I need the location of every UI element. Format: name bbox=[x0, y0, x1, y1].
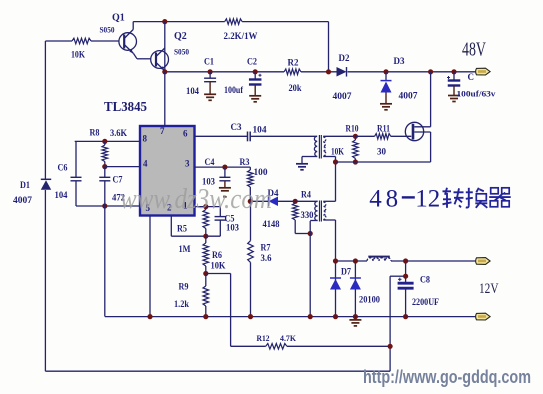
svg-text:C6: C6 bbox=[58, 163, 68, 173]
svg-text:R9: R9 bbox=[179, 282, 189, 292]
svg-text:2: 2 bbox=[428, 186, 441, 213]
svg-text:2.2K/1W: 2.2K/1W bbox=[224, 31, 258, 41]
svg-text:www.dz3w.com: www.dz3w.com bbox=[120, 184, 272, 215]
svg-text:103: 103 bbox=[226, 223, 239, 233]
svg-text:100: 100 bbox=[254, 167, 269, 177]
svg-text:100uf/63v: 100uf/63v bbox=[457, 90, 496, 99]
svg-text:TL3845: TL3845 bbox=[104, 99, 147, 114]
svg-text:C1: C1 bbox=[204, 57, 214, 67]
svg-text:R10: R10 bbox=[346, 124, 359, 134]
svg-text:104: 104 bbox=[186, 86, 199, 96]
svg-text:30: 30 bbox=[377, 148, 386, 158]
svg-text:C2: C2 bbox=[247, 57, 257, 67]
svg-text:100uf: 100uf bbox=[224, 86, 244, 96]
svg-text:10K: 10K bbox=[331, 148, 344, 158]
svg-text:D7: D7 bbox=[341, 267, 351, 277]
svg-text:8: 8 bbox=[143, 134, 148, 144]
svg-text:D1: D1 bbox=[20, 180, 30, 190]
svg-text:R2: R2 bbox=[288, 58, 299, 68]
svg-text:4: 4 bbox=[369, 186, 382, 213]
svg-text:C8: C8 bbox=[420, 275, 430, 285]
svg-text:http://www.go-gddq.com: http://www.go-gddq.com bbox=[363, 366, 531, 387]
svg-text:48V: 48V bbox=[462, 40, 486, 61]
svg-text:4.7K: 4.7K bbox=[280, 333, 296, 343]
svg-text:6: 6 bbox=[183, 129, 188, 139]
svg-text:Q2: Q2 bbox=[174, 31, 187, 42]
svg-text:D3: D3 bbox=[394, 56, 405, 66]
svg-text:4148: 4148 bbox=[263, 220, 280, 230]
svg-text:104: 104 bbox=[55, 190, 68, 200]
svg-text:3.6K: 3.6K bbox=[110, 128, 127, 138]
svg-text:3.6: 3.6 bbox=[261, 253, 272, 263]
svg-text:8: 8 bbox=[386, 186, 399, 213]
svg-text:20100: 20100 bbox=[359, 296, 380, 306]
svg-text:10K: 10K bbox=[211, 262, 227, 272]
svg-text:1M: 1M bbox=[179, 245, 191, 255]
svg-text:C: C bbox=[468, 72, 475, 82]
svg-text:10K: 10K bbox=[71, 51, 86, 61]
svg-text:3: 3 bbox=[185, 159, 190, 169]
svg-text:4: 4 bbox=[143, 159, 148, 169]
svg-text:Q1: Q1 bbox=[112, 13, 125, 24]
svg-text:330: 330 bbox=[301, 211, 314, 221]
svg-text:R7: R7 bbox=[261, 243, 271, 253]
svg-text:D2: D2 bbox=[339, 53, 350, 63]
svg-text:S050: S050 bbox=[100, 25, 115, 35]
svg-text:S050: S050 bbox=[174, 47, 189, 57]
svg-text:1.2k: 1.2k bbox=[174, 300, 190, 310]
svg-text:R3: R3 bbox=[240, 157, 250, 167]
svg-text:4007: 4007 bbox=[333, 91, 353, 101]
svg-text:R4: R4 bbox=[301, 190, 311, 200]
svg-text:C3: C3 bbox=[231, 122, 242, 132]
svg-text:2200UF: 2200UF bbox=[412, 297, 439, 307]
svg-text:R5: R5 bbox=[177, 224, 187, 234]
svg-text:C7: C7 bbox=[113, 175, 123, 185]
svg-text:R8: R8 bbox=[90, 128, 100, 138]
svg-text:104: 104 bbox=[253, 126, 267, 136]
svg-text:12V: 12V bbox=[479, 281, 499, 297]
svg-text:R12: R12 bbox=[257, 333, 270, 343]
svg-text:R6: R6 bbox=[212, 250, 222, 260]
svg-text:C4: C4 bbox=[205, 157, 215, 167]
svg-text:20k: 20k bbox=[289, 84, 303, 94]
svg-text:R11: R11 bbox=[377, 124, 390, 134]
svg-text:4007: 4007 bbox=[399, 91, 419, 101]
svg-text:7: 7 bbox=[160, 126, 165, 136]
svg-text:1: 1 bbox=[415, 186, 428, 213]
svg-text:4007: 4007 bbox=[13, 195, 33, 205]
